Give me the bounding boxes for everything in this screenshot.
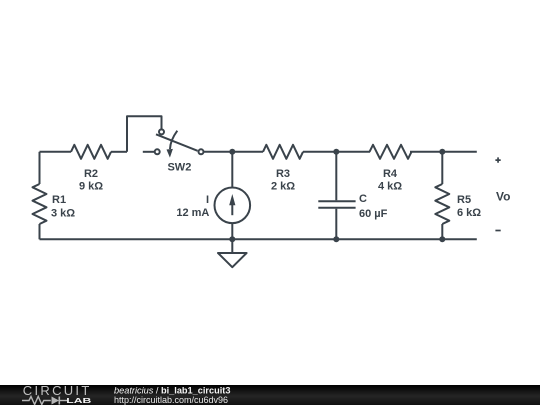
wire node C to right terminal [442, 151, 477, 153]
wire top left horizontal [40, 151, 72, 153]
resistor R2 [71, 145, 111, 159]
svg-text:C: C [359, 193, 367, 205]
svg-text:SW2: SW2 [167, 162, 191, 174]
svg-text:60 µF: 60 µF [359, 208, 388, 220]
node C junction dot [439, 149, 445, 155]
wire R4 to node C [410, 151, 442, 153]
ground [218, 239, 247, 267]
footer bar [0, 385, 540, 405]
current source I [215, 152, 251, 240]
wire bottom horizontal [40, 238, 477, 240]
svg-text:R3: R3 [276, 168, 290, 180]
svg-text:R1: R1 [52, 194, 66, 206]
wire switch to node A [204, 151, 233, 153]
capacitor C [318, 152, 355, 240]
wire left vertical bottom [39, 224, 41, 239]
bottom node dot R5 [439, 236, 445, 242]
wire R3 to node B [303, 151, 336, 153]
svg-text:R5: R5 [457, 194, 471, 206]
node A junction dot [229, 149, 235, 155]
bottom node dot current source [229, 236, 235, 242]
svg-text:I: I [206, 194, 209, 206]
node B junction dot [333, 149, 339, 155]
svg-text:LAB: LAB [66, 396, 92, 405]
svg-text:2 kΩ: 2 kΩ [271, 181, 295, 193]
label plus terminal [495, 157, 500, 162]
resistor R1 [33, 184, 47, 224]
logo resistor zigzag [22, 397, 51, 405]
switch SW2 [143, 129, 204, 157]
resistor R3 [263, 145, 303, 159]
svg-text:12 mA: 12 mA [176, 207, 209, 219]
svg-text:4 kΩ: 4 kΩ [378, 181, 402, 193]
svg-text:6 kΩ: 6 kΩ [457, 207, 481, 219]
logo diode [52, 397, 60, 405]
svg-text:http://circuitlab.com/cu6dv96: http://circuitlab.com/cu6dv96 [114, 395, 228, 405]
svg-text:3 kΩ: 3 kΩ [51, 207, 75, 219]
svg-text:9 kΩ: 9 kΩ [79, 181, 103, 193]
resistor R5 [435, 152, 449, 240]
wire node B to R4 [336, 151, 370, 153]
bottom node dot capacitor [333, 236, 339, 242]
wire left vertical top [39, 152, 41, 184]
svg-text:beatricius / bi_lab1_circuit3: beatricius / bi_lab1_circuit3 [114, 385, 230, 395]
wire R2 to bump [111, 151, 127, 153]
resistor R4 [370, 145, 412, 159]
label minus terminal [495, 230, 500, 232]
svg-text:R4: R4 [383, 168, 398, 180]
svg-text:R2: R2 [84, 168, 98, 180]
wire bump over switch [127, 116, 162, 152]
svg-text:Vo: Vo [496, 189, 510, 203]
wire node A to R3 [232, 151, 263, 153]
